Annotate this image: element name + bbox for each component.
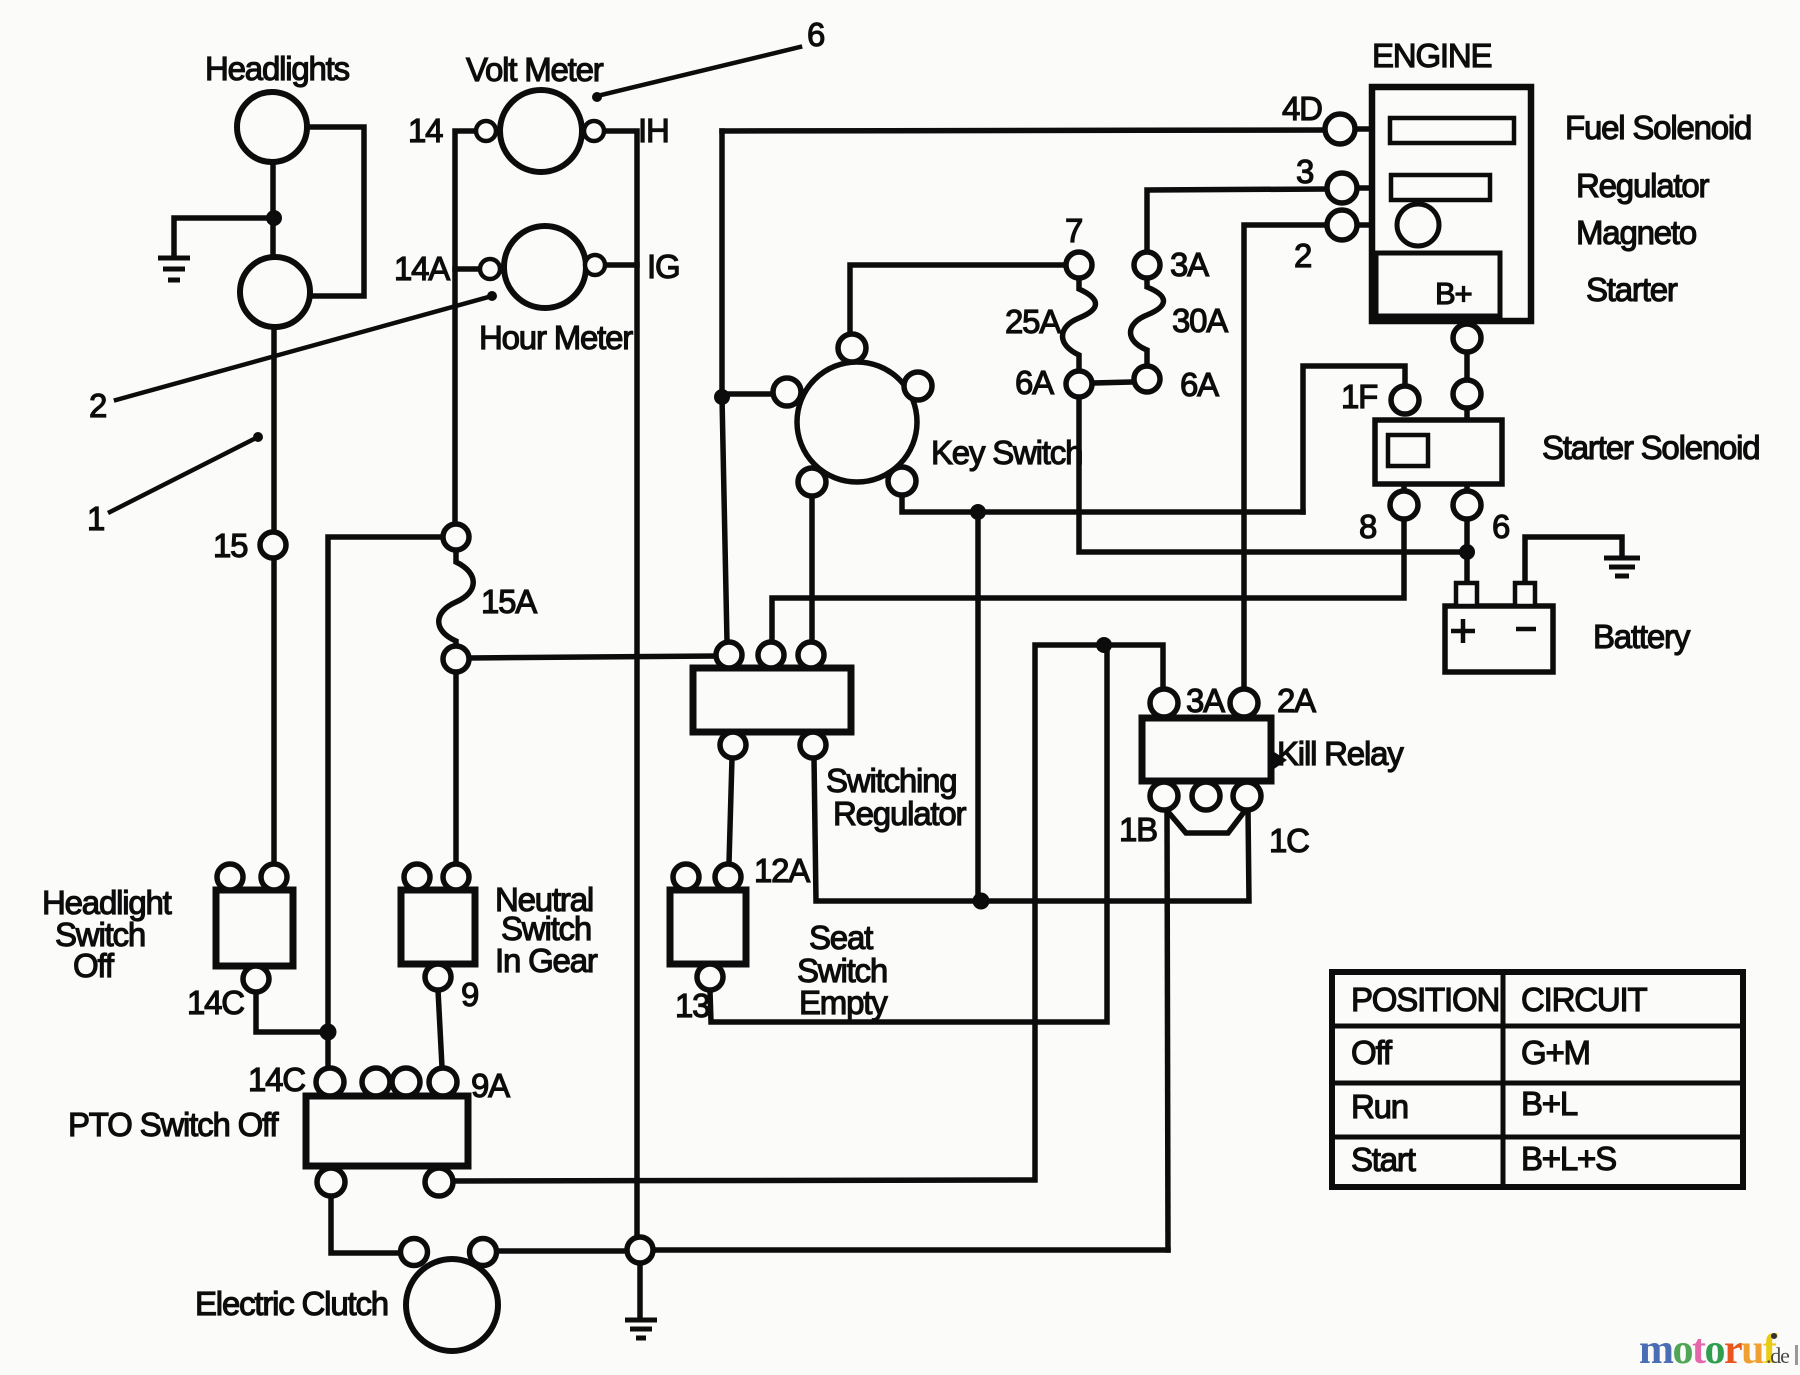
svg-text:motoruf: motoruf [1639,1327,1778,1373]
svg-text:Headlights: Headlights [205,50,350,87]
svg-text:B+: B+ [1435,276,1471,311]
svg-text:1B: 1B [1119,811,1157,848]
svg-text:POSITION: POSITION [1351,981,1499,1018]
svg-text:12A: 12A [754,852,810,889]
svg-text:Fuel Solenoid: Fuel Solenoid [1565,109,1751,146]
svg-text:3A: 3A [1186,682,1225,719]
svg-text:2: 2 [89,387,106,424]
svg-text:Kill Relay: Kill Relay [1277,735,1404,772]
svg-text:Empty: Empty [799,984,888,1021]
svg-text:2: 2 [1294,237,1311,274]
svg-text:14C: 14C [248,1061,305,1098]
svg-text:14: 14 [408,112,443,149]
svg-text:In Gear: In Gear [495,942,598,979]
svg-text:Volt Meter: Volt Meter [466,51,604,88]
svg-text:2A: 2A [1277,682,1316,719]
svg-text:14C: 14C [187,984,244,1021]
svg-text:13: 13 [675,987,709,1024]
svg-text:9: 9 [461,976,478,1013]
svg-text:30A: 30A [1172,302,1228,339]
svg-text:CIRCUIT: CIRCUIT [1521,981,1647,1018]
svg-text:8: 8 [1359,508,1376,545]
svg-text:Hour Meter: Hour Meter [479,319,633,356]
svg-text:Regulator: Regulator [833,795,966,832]
svg-text:6A: 6A [1015,364,1054,401]
svg-text:B+L+S: B+L+S [1521,1140,1616,1177]
svg-text:ENGINE: ENGINE [1372,37,1492,74]
svg-text:Magneto: Magneto [1576,214,1696,251]
svg-text:Electric Clutch: Electric Clutch [195,1285,388,1322]
svg-text:Off: Off [73,947,115,984]
svg-text:7: 7 [1065,212,1082,249]
svg-text:6A: 6A [1180,366,1219,403]
svg-text:Starter Solenoid: Starter Solenoid [1542,429,1759,466]
svg-text:4D: 4D [1282,90,1322,127]
svg-text:IH: IH [638,112,669,149]
svg-text:PTO Switch Off: PTO Switch Off [68,1106,279,1143]
svg-text:15: 15 [213,527,247,564]
svg-text:.de: .de [1766,1343,1789,1368]
svg-text:Starter: Starter [1586,271,1678,308]
svg-text:Start: Start [1351,1141,1416,1178]
svg-text:1C: 1C [1269,822,1309,859]
svg-text:25A: 25A [1005,303,1061,340]
svg-text:14A: 14A [394,250,450,287]
svg-text:6: 6 [1492,508,1509,545]
svg-text:9A: 9A [471,1067,510,1104]
svg-text:Switching: Switching [826,762,956,799]
svg-text:1F: 1F [1341,378,1377,415]
svg-text:3A: 3A [1170,246,1209,283]
svg-text:1: 1 [87,500,104,537]
svg-text:6: 6 [807,16,824,53]
svg-text:Regulator: Regulator [1576,167,1709,204]
svg-text:B+L: B+L [1521,1085,1578,1122]
svg-text:15A: 15A [481,583,537,620]
svg-text:Run: Run [1351,1088,1408,1125]
svg-text:IG: IG [647,248,679,285]
svg-text:Off: Off [1351,1034,1393,1071]
svg-text:Seat: Seat [809,919,873,956]
svg-text:Battery: Battery [1593,618,1691,655]
svg-text:3: 3 [1296,153,1313,190]
svg-text:Key Switch: Key Switch [931,434,1082,471]
svg-text:G+M: G+M [1521,1034,1590,1071]
